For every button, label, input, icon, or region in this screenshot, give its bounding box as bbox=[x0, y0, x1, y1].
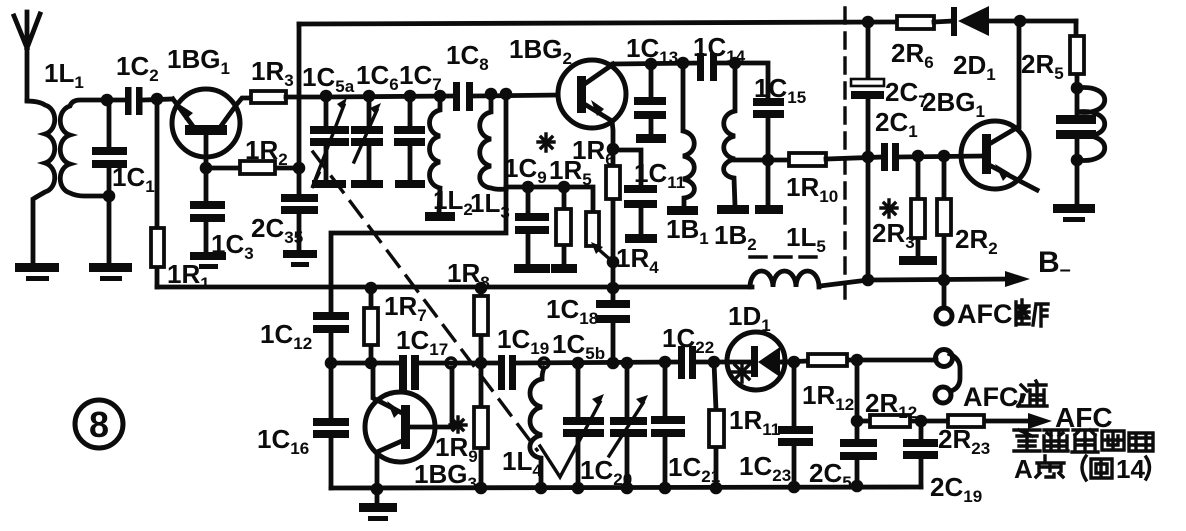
star (1R9) bbox=[450, 417, 466, 432]
node (1C1 lower / 1L1 bottom) bbox=[103, 190, 116, 203]
node (osc line/1R8-1R9) bbox=[475, 357, 488, 370]
node (bottom line/1R11) bbox=[710, 482, 723, 495]
ground (1BG3) bbox=[359, 489, 397, 521]
node (osc line/1C5b) bbox=[572, 357, 585, 370]
capacitor 1C21 bbox=[651, 362, 685, 488]
node (1B1 top) bbox=[677, 57, 690, 70]
node (1L1/1C1/1C2) bbox=[101, 94, 114, 107]
node (osc line/1C12 column) bbox=[325, 357, 338, 370]
ganged tuning dashed link bbox=[313, 152, 537, 450]
inductor 1L1 primary winding bbox=[27, 101, 55, 262]
terminal circle (osc link left) bbox=[446, 358, 456, 368]
node (2C7 top on rail) bbox=[862, 16, 875, 29]
transistor 1BG3 bbox=[365, 363, 452, 489]
node (osc line/1C20) bbox=[621, 357, 634, 370]
capacitor 2C19 bbox=[903, 421, 938, 487]
ground (1L1) bbox=[15, 263, 59, 281]
node (2D1 cathode / collector feed) bbox=[1014, 15, 1027, 28]
node (2C7 / IF line crossing) bbox=[862, 151, 875, 164]
diode 2D1 bbox=[951, 6, 1076, 36]
wire: 1BG2 collector line bbox=[613, 63, 698, 64]
ground (tank) bbox=[1053, 204, 1095, 222]
svg-text:14: 14 bbox=[1116, 454, 1145, 484]
node (bottom line/2C5) bbox=[851, 480, 864, 493]
wire: main RF line to mixer bbox=[326, 95, 558, 97]
CJK duan (cutoff) bbox=[1016, 300, 1048, 326]
inductor 1L4 bbox=[530, 368, 544, 488]
node (bottom line/1C20) bbox=[621, 482, 634, 495]
IF transformer 1B2 bbox=[717, 63, 749, 214]
node (bus/1R7) bbox=[365, 282, 378, 295]
ground (2C35) bbox=[283, 250, 317, 267]
ground (2R3) bbox=[899, 256, 937, 265]
capacitor 1C15 bbox=[735, 63, 784, 214]
capacitor 1C19 bbox=[498, 355, 516, 390]
node (bus/1C18) bbox=[607, 282, 620, 295]
star (1R5) bbox=[538, 134, 554, 151]
node (tank bottom) bbox=[1071, 154, 1084, 167]
node (1R11 top) bbox=[708, 356, 721, 369]
svg-text:AFC: AFC bbox=[963, 382, 1019, 412]
AFC cutoff terminal bbox=[936, 280, 952, 324]
node (2R3 top) bbox=[912, 150, 925, 163]
IF transformer 1B1 bbox=[667, 63, 698, 215]
CJK line: point A (fig 14) bbox=[1036, 456, 1112, 480]
inductor 1L5 bbox=[750, 257, 819, 287]
resistor 1R7 bbox=[364, 288, 378, 363]
wire: supply column x=299 bbox=[297, 24, 302, 194]
wire: top node to 1C2 bbox=[106, 98, 124, 103]
capacitor 1C14 bbox=[697, 53, 735, 81]
capacitor 2C1 bbox=[881, 143, 982, 171]
ground (1R5) bbox=[551, 264, 577, 273]
CJK tong (on) bbox=[1018, 381, 1047, 406]
node (1BG1 base) bbox=[200, 162, 213, 175]
node (1R5 top) bbox=[558, 181, 571, 194]
node (bottom line/1C5b) bbox=[572, 482, 585, 495]
capacitor 1C9 bbox=[515, 187, 549, 265]
capacitor 1C18 bbox=[596, 300, 630, 363]
CJK line: to discriminator bbox=[1014, 430, 1153, 452]
variable capacitor 1C20 bbox=[609, 363, 648, 488]
node (bus/2C7) bbox=[862, 274, 875, 287]
wire: bottom common line bbox=[331, 487, 921, 488]
resistor 2R3 bbox=[911, 156, 925, 257]
node (bottom line/1C23) bbox=[788, 481, 801, 494]
inductor 1L1 secondary winding bbox=[60, 100, 109, 196]
node (oscillator tap) bbox=[500, 88, 513, 101]
oscillator tank inductor bbox=[1077, 87, 1105, 160]
inductor 1L3 bbox=[480, 94, 506, 189]
capacitor 1C23 bbox=[778, 362, 813, 487]
resistor 1R3 bbox=[251, 91, 326, 103]
capacitor 2C35 bbox=[281, 194, 318, 251]
node (1C13 top) bbox=[645, 58, 658, 71]
capacitor 1C7 bbox=[394, 96, 425, 188]
resistor 1R10 bbox=[789, 153, 882, 166]
svg-text:AFC: AFC bbox=[957, 299, 1013, 329]
ground (1C3) bbox=[190, 252, 226, 269]
node (1R4 wiper joins emitter column) bbox=[607, 256, 620, 269]
star (2R3) bbox=[881, 200, 897, 217]
node (osc line/1R7) bbox=[365, 357, 378, 370]
resistor 2R6 bbox=[897, 16, 953, 29]
AFC switch bbox=[935, 350, 960, 404]
capacitor 1C3 bbox=[190, 168, 225, 252]
wire: B- bus (lower rail of top section) bbox=[157, 279, 1010, 287]
resistor 2R12 bbox=[870, 415, 910, 427]
capacitor 2C5 bbox=[840, 421, 877, 486]
resistor 2R23 bbox=[948, 415, 984, 427]
variable capacitor 1C5b bbox=[540, 363, 604, 488]
node (bottom line/1L4) bbox=[535, 482, 548, 495]
resistor 1R12 bbox=[808, 354, 847, 366]
node (1R2 right) bbox=[293, 162, 306, 175]
node (2R12 right/2C19) bbox=[915, 415, 928, 428]
wire: top supply rail bbox=[299, 22, 897, 24]
node (1C5a top) bbox=[320, 90, 333, 103]
rheostat 1R4 bbox=[586, 212, 613, 262]
wire: IF output tap bbox=[735, 158, 789, 163]
node (bottom line/1R9) bbox=[475, 482, 488, 495]
capacitor 1C11 bbox=[613, 150, 657, 243]
trimmer capacitor 1C6 bbox=[351, 96, 383, 188]
wire: oscillator line y=363 bbox=[331, 360, 936, 363]
node (osc line/1C21) bbox=[659, 356, 672, 369]
svg-text:8: 8 bbox=[89, 404, 109, 445]
antenna bbox=[14, 12, 40, 100]
node (1C2 right / 1R1) bbox=[151, 93, 164, 106]
capacitor 1C2 bbox=[125, 87, 172, 115]
node (bus/2R2) bbox=[938, 274, 951, 287]
resistor 1R2 bbox=[206, 161, 299, 174]
node (1C7 top) bbox=[404, 90, 417, 103]
node (2R2 top) bbox=[938, 150, 951, 163]
node (1BG3 emitter/bottom line) bbox=[371, 483, 384, 496]
ground (1C1) bbox=[89, 263, 132, 281]
resistor 1R8 bbox=[474, 288, 488, 363]
node (osc line/1C18 bottom) bbox=[607, 357, 620, 370]
node (1B2 top) bbox=[729, 57, 742, 70]
capacitor 1C8 bbox=[453, 82, 473, 111]
node (2R12 left/2C5) bbox=[851, 415, 864, 428]
node (1C9 top) bbox=[522, 181, 535, 194]
svg-text:A: A bbox=[1014, 454, 1033, 484]
oscillator tank capacitor bbox=[1056, 88, 1096, 205]
node (1L3 top) bbox=[485, 88, 498, 101]
wire: bias tap line y=187 bbox=[506, 187, 593, 212]
resistor 1R11 bbox=[709, 362, 724, 488]
transistor 1BG2 bbox=[558, 60, 626, 149]
transistor 2BG1 bbox=[961, 21, 1037, 190]
node (bottom line/1C21) bbox=[659, 482, 672, 495]
arrow AFC bbox=[1028, 413, 1052, 429]
capacitor 1C1 bbox=[92, 100, 127, 263]
resistor 1R6 bbox=[606, 149, 620, 301]
inductor 1L2 bbox=[425, 96, 455, 221]
resistor 1R9 bbox=[474, 363, 488, 488]
shield dashed line bbox=[843, 8, 846, 299]
terminal circle (osc link right) bbox=[539, 358, 549, 368]
node (1R12 right) bbox=[851, 354, 864, 367]
node (1C6 top) bbox=[363, 90, 376, 103]
capacitor 2C7 bbox=[851, 22, 884, 280]
ground (1C9) bbox=[514, 264, 550, 273]
capacitor 1C22 bbox=[678, 346, 696, 379]
resistor 1R5 bbox=[556, 187, 571, 265]
node (bus/1R8) bbox=[475, 282, 488, 295]
wire: osc feedback down and stepped left bbox=[331, 94, 506, 313]
node (1BG2 emitter) bbox=[607, 143, 620, 156]
wire: AFC output line y=421 bbox=[857, 360, 1040, 421]
resistor 2R2 bbox=[937, 156, 951, 281]
arrow B- bbox=[1005, 271, 1030, 287]
capacitor 1C13 bbox=[634, 64, 666, 143]
node (1L2 top) bbox=[434, 90, 447, 103]
diode 1D1 (varactor) bbox=[727, 332, 786, 390]
capacitor 1C17 bbox=[399, 355, 419, 390]
transistor 1BG1 bbox=[172, 89, 251, 168]
resistor 2R5 bbox=[1070, 21, 1084, 87]
capacitor 1C16 bbox=[313, 418, 349, 488]
figure number 8 bbox=[75, 400, 123, 448]
resistor 1R1 bbox=[151, 99, 164, 287]
node (1C23 top) bbox=[788, 356, 801, 369]
capacitor 1C12 bbox=[313, 312, 349, 419]
node (1C15/tap line) bbox=[762, 154, 775, 167]
node (tank top) bbox=[1071, 82, 1084, 95]
variable capacitor 1C5a bbox=[310, 96, 349, 188]
